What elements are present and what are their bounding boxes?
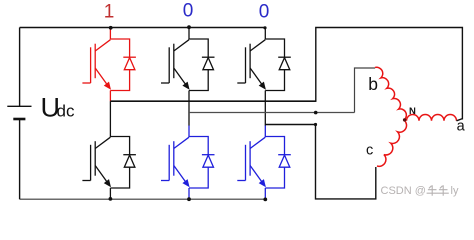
wire: leg b bottom to negative rail (blue): [188, 188, 190, 199]
transistor cell VT4 bottom phase-a: wiring loop: [110, 126, 129, 189]
motor winding c (red coil): [377, 121, 407, 167]
svg-text:CSDN @: CSDN @: [381, 185, 426, 197]
svg-text:c: c: [366, 142, 373, 158]
IGBT VT2: [237, 137, 266, 187]
svg-text:dc: dc: [57, 102, 75, 121]
wire: leg a midpoint vertical (emitter Q1 to collector Q2), red above node: [109, 91, 111, 102]
node: neutral point N dot: [403, 118, 406, 121]
wire: top DC bus (positive rail): [20, 27, 266, 29]
transistor cell VT6 bottom phase-b: wiring loop: [189, 126, 208, 189]
svg-text:b: b: [368, 74, 378, 94]
IGBT VT3: [161, 40, 190, 90]
motor winding a (red coil): [407, 115, 457, 121]
node: junction dot top rail leg 2: [187, 25, 191, 29]
transistor cell VT5 top phase-c (state 0): wiring loop: [265, 28, 284, 91]
svg-text:0: 0: [183, 1, 194, 22]
wire: left bus vertical (battery leads): [19, 28, 21, 200]
IGBT VT6: [161, 137, 190, 187]
node: junction dot top rail leg 1: [109, 26, 113, 30]
transistor cell VT2 bottom phase-c: wiring loop: [265, 126, 284, 189]
battery Udc: negative plate: [13, 118, 25, 121]
wire: leg c midpoint vertical: [264, 91, 266, 126]
wire: leg b midpoint vertical: [188, 91, 190, 126]
freewheeling diode VD3: [202, 57, 215, 69]
node: junction dot bottom rail leg 2: [187, 197, 191, 201]
node: dot on phase b wire at x=315.7: [314, 111, 318, 115]
wire: bottom DC bus (negative rail): [20, 198, 267, 200]
freewheeling diode VD4: [123, 155, 136, 168]
freewheeling diode VD1: [123, 57, 136, 69]
battery Udc: positive plate: [7, 105, 31, 107]
svg-text:ly: ly: [451, 185, 459, 197]
wire: leg c bottom to negative rail (blue): [264, 188, 266, 199]
IGBT VT5: [237, 40, 266, 90]
transistor cell VT3 top phase-b (state 0): wiring loop: [189, 28, 208, 91]
svg-text:0: 0: [259, 2, 270, 23]
IGBT VT1: [82, 40, 111, 90]
freewheeling diode VD6: [202, 155, 215, 168]
wire: leg a bottom to negative rail: [109, 188, 111, 199]
svg-text:a: a: [457, 119, 466, 135]
node: junction dot top rail leg 3: [263, 26, 266, 29]
svg-text:1: 1: [104, 2, 115, 23]
motor winding b (red coil): [375, 67, 406, 119]
transistor cell VT1 top phase-a (state 1): wiring loop: [110, 28, 129, 91]
wire: phase a output (leg 1 to motor terminal a, over the top): [110, 100, 315, 102]
node: junction dot bottom rail leg 3: [263, 198, 267, 202]
freewheeling diode VD2: [278, 155, 291, 168]
wire: phase b output (leg 2 to winding b): [189, 112, 355, 114]
wire: phase c output (leg 3 to winding c, under the bottom): [265, 125, 376, 199]
node: junction dot bottom rail leg 1: [109, 197, 113, 201]
node: dot at phase c corner: [314, 123, 317, 126]
freewheeling diode VD5: [278, 57, 291, 69]
svg-text:N: N: [409, 106, 416, 117]
IGBT VT4: [82, 137, 111, 187]
